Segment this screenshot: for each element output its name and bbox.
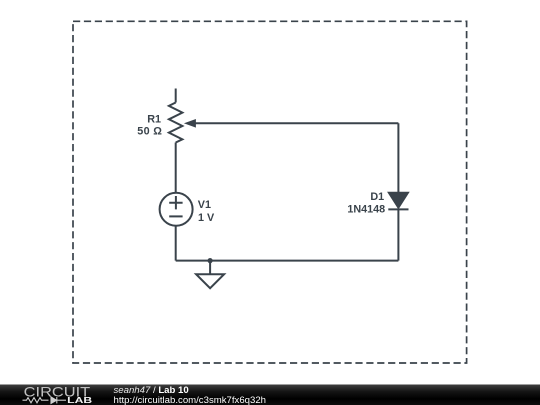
label R1 (147, 113, 161, 125)
value label 1N4148 (347, 203, 385, 215)
footer bar (0, 385, 540, 405)
resistor R1 (potentiometer body) (169, 103, 183, 143)
dashed schematic boundary (73, 21, 467, 363)
label D1 (370, 191, 384, 203)
CircuitLab logo: LAB wordmark (67, 395, 92, 405)
diode D1 (388, 193, 408, 210)
node junction at ground tap (208, 258, 213, 263)
wire: V1 bottom stub (175, 226, 177, 261)
wire: D1 cathode down to bottom wire (397, 209, 399, 260)
value label 1 V (198, 212, 215, 224)
svg-text:1 V: 1 V (198, 212, 215, 224)
value label 50 Ohm (137, 126, 162, 138)
svg-text:V1: V1 (198, 199, 211, 211)
CircuitLab logo: CIRCUIT wordmark (24, 383, 91, 399)
wiper arrow of R1 (185, 120, 195, 127)
CircuitLab logo: resistor squiggle (23, 398, 49, 403)
svg-text:LAB: LAB (67, 395, 92, 405)
svg-text:50 Ω: 50 Ω (137, 126, 162, 138)
voltage source V1 (160, 193, 193, 226)
wire: bottom horizontal (176, 260, 399, 262)
svg-text:R1: R1 (147, 113, 161, 125)
wire: R1 top free stub (175, 89, 177, 103)
CircuitLab logo: diode symbol (51, 397, 66, 403)
footer url (114, 395, 267, 405)
wire: wiper to right vertical (195, 122, 399, 124)
footer title: user / document (114, 385, 267, 405)
label V1 (198, 199, 211, 211)
wire: junction to ground (209, 261, 211, 275)
wire: R1 bottom to V1 top (175, 143, 177, 193)
ground (196, 274, 224, 288)
svg-text:1N4148: 1N4148 (347, 203, 385, 215)
svg-text:http://circuitlab.com/c3smk7fx: http://circuitlab.com/c3smk7fx6q32h (114, 395, 267, 405)
wire: right vertical down to D1 anode (397, 123, 399, 193)
svg-text:D1: D1 (370, 191, 384, 203)
